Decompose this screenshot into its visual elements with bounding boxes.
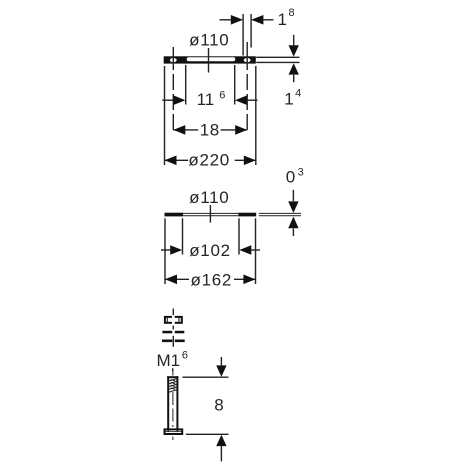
svg-text:ø110: ø110: [189, 188, 229, 207]
svg-text:ø102: ø102: [189, 241, 231, 260]
svg-text:ø220: ø220: [188, 151, 230, 170]
svg-text:18: 18: [200, 121, 220, 140]
svg-text:ø162: ø162: [191, 270, 233, 289]
svg-text:ø110: ø110: [189, 30, 229, 49]
svg-text:8: 8: [214, 396, 223, 415]
